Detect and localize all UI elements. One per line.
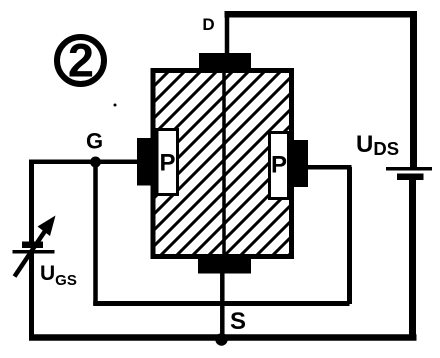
svg-text:G: G <box>86 129 103 154</box>
gate contact pad right <box>294 140 308 187</box>
battery UGS short thick plate <box>22 242 43 249</box>
P well left (white) <box>157 130 178 195</box>
wire: source lead vertical from bottom pad down <box>220 272 225 340</box>
wire: right rail lower (battery to bottom) <box>409 179 416 340</box>
ink speck <box>114 104 117 107</box>
battery UGS long plate <box>13 250 55 254</box>
svg-text:P: P <box>159 150 175 177</box>
junction dot at S <box>215 333 227 345</box>
gate contact pad left <box>137 138 152 186</box>
wire: right gate horizontal (right pad to vertical) <box>307 165 352 170</box>
svg-text:2: 2 <box>68 34 94 87</box>
battery UDS long plate <box>386 167 432 171</box>
svg-text:D: D <box>202 15 214 34</box>
wire: left rail lower (battery to bottom) <box>29 253 34 341</box>
junction dot at G <box>90 157 101 168</box>
svg-text:P: P <box>271 152 287 179</box>
wire: right gate vertical (down from right gate pad wire) <box>347 167 352 304</box>
source contact pad (bottom) <box>198 259 251 274</box>
wire: bottom rail <box>29 334 417 341</box>
wire: left rail upper (G wire to battery UGS) <box>29 160 34 244</box>
wire: gate drop from G junction down <box>93 162 98 305</box>
P well right (white) <box>270 133 289 199</box>
channel centre line through block <box>222 69 226 259</box>
circled figure number 2 <box>57 34 104 87</box>
battery UDS short thick plate <box>397 174 424 181</box>
arrow shaft through UGS battery (variable source) <box>15 231 46 277</box>
wire: gate return horizontal (bottom of gate loop) <box>93 301 349 306</box>
wire: right rail upper (down to battery UDS) <box>410 11 417 168</box>
drain contact pad (top) <box>199 53 251 70</box>
wire: gate horizontal (left rail to left gate pad) <box>29 160 139 165</box>
transistor body: hatched N channel block <box>153 71 292 257</box>
arrow head <box>38 216 56 237</box>
wire: top horizontal (D to right rail) <box>225 11 415 18</box>
wire: drain lead vertical from top pad up <box>225 12 230 54</box>
svg-text:S: S <box>230 308 246 335</box>
